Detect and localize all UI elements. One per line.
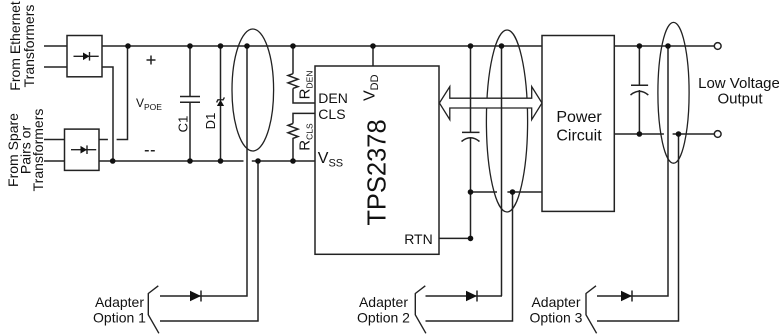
svg-text:Option 1: Option 1 — [93, 310, 146, 326]
svg-text:Option 2: Option 2 — [357, 310, 410, 326]
svg-text:Transformers: Transformers — [21, 5, 37, 88]
svg-text:CLS: CLS — [318, 106, 345, 122]
svg-text:Circuit: Circuit — [556, 127, 602, 144]
svg-text:C1: C1 — [176, 116, 191, 133]
svg-text:Power: Power — [556, 109, 602, 126]
svg-text:DEN: DEN — [318, 90, 348, 106]
svg-text:RTN: RTN — [404, 231, 433, 247]
svg-text:Adapter: Adapter — [359, 294, 408, 310]
svg-text:D1: D1 — [203, 113, 218, 130]
svg-text:Adapter: Adapter — [531, 294, 580, 310]
svg-text:TPS2378: TPS2378 — [364, 119, 392, 225]
svg-text:Adapter: Adapter — [95, 294, 144, 310]
svg-text:Low Voltage: Low Voltage — [698, 75, 779, 92]
svg-text:Option 3: Option 3 — [530, 310, 583, 326]
svg-text:Transformers: Transformers — [30, 109, 46, 192]
svg-text:Output: Output — [717, 91, 763, 108]
